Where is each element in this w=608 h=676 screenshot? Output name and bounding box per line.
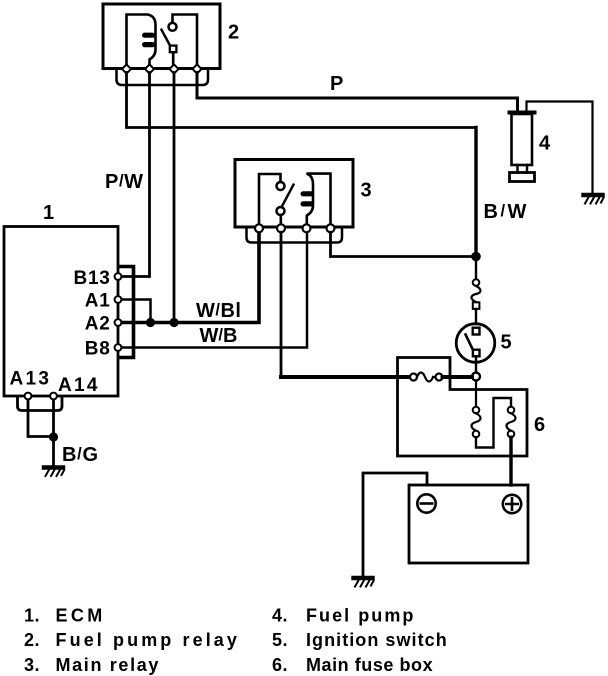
fuel pump M4 [510,111,535,115]
ECM right connector bracket [119,267,134,358]
svg-text:6: 6 [534,414,545,436]
svg-text:ECM: ECM [56,606,106,626]
main relay U3 box [235,160,353,228]
main relay terminal t3 [303,224,311,232]
svg-text:3: 3 [361,179,372,201]
fusible link right [508,407,515,414]
svg-text:2: 2 [228,22,239,44]
svg-text:W/Bl: W/Bl [196,300,241,322]
wire ECM A1 to A2 node [118,300,151,323]
fuel pump relay terminal t4 [192,64,201,73]
svg-text:5: 5 [501,332,512,354]
fuel pump relay terminal t2 [145,64,154,73]
ECM pin A13 [25,393,32,400]
wire B8 W/B to main relay t3 [118,232,307,348]
junction dot B/W [471,252,481,262]
main relay coil [307,174,331,227]
svg-text:4.: 4. [272,606,288,626]
svg-text:Main fuse box: Main fuse box [306,655,433,675]
svg-text:P: P [330,73,343,95]
fuse F1 [410,374,417,381]
svg-text:B/W: B/W [484,201,529,223]
ECM pin A2 [115,319,122,326]
svg-text:5.: 5. [272,630,288,650]
ignition terminal node [472,373,480,381]
ECM pin B13 [115,273,122,280]
wire B/W vertical [474,128,477,257]
wire A2 W/Bl to main relay t1 [118,230,259,323]
wire battery minus to ground [363,473,427,576]
ground fuel pump [584,195,604,204]
wire link to battery plus [509,437,512,485]
svg-text:A14: A14 [58,375,100,396]
svg-text:B/G: B/G [62,444,99,466]
fuel pump relay terminal t3 [169,64,178,73]
fusible link left [475,381,477,407]
wire fuel pump to ground [527,102,593,194]
wire relay2 t1 to B/W node [127,73,477,128]
svg-text:1: 1 [43,202,54,224]
junction dot relay2-t3/A2 [169,318,178,327]
link jog wire [476,398,511,448]
svg-text:1.: 1. [24,606,40,626]
fuel pump relay terminal t1 [122,64,131,73]
svg-text:Ignition switch: Ignition switch [306,630,448,650]
main fuse box U6 outline [398,358,528,457]
svg-text:3.: 3. [24,655,40,675]
fuel pump relay switch [173,15,198,69]
svg-text:A1: A1 [85,291,111,312]
battery minus terminal [417,494,435,512]
fuse wire from main relay t2 [281,375,410,379]
ignition switch SW5 [456,324,495,363]
ECM U1 box [4,227,118,397]
svg-text:B8: B8 [85,339,111,360]
svg-text:Main relay: Main relay [56,655,161,675]
ground battery [354,578,374,587]
wire relay2 t3 down to A2 node [173,73,176,323]
svg-text:6.: 6. [272,655,288,675]
svg-text:A13: A13 [10,369,52,390]
svg-text:Fuel pump relay: Fuel pump relay [56,630,241,650]
svg-text:2.: 2. [24,630,40,650]
ECM pin B8 [115,344,122,351]
inline connector above ignition switch [475,261,477,279]
junction dot A13/A14 [49,432,58,441]
svg-text:P/W: P/W [105,171,144,193]
wire relay2 t2 P/W down to ECM B13 [118,73,150,277]
ECM pin A14 [50,393,57,400]
wire main relay t4 to B/W node [331,232,472,256]
main relay connector bracket [247,229,343,243]
main relay terminal t4 [327,224,335,232]
svg-text:B13: B13 [74,268,111,289]
wire ECM A14 to ground [52,399,55,466]
svg-text:Fuel pump: Fuel pump [306,606,415,626]
svg-text:W/B: W/B [200,325,238,347]
svg-text:A2: A2 [85,314,111,335]
fuel pump relay connector bracket [117,69,209,85]
svg-text:4: 4 [539,132,551,154]
ECM bottom connector bracket [18,397,63,411]
ground below ECM [44,468,64,477]
fuel pump relay U2 box [103,4,220,69]
main relay switch [259,174,281,227]
ECM pin A1 [115,296,122,303]
wire main relay t2 to fuse [280,232,283,377]
main relay terminal t2 [277,224,285,232]
wire ECM A13 to ground [28,399,54,437]
main relay terminal t1 [255,224,263,232]
junction dot A1/A2 [146,318,155,327]
battery plus terminal [503,495,521,513]
wire relay2 t4 P to fuel pump [197,73,518,112]
battery [409,485,528,563]
fuel pump relay coil [127,15,156,69]
